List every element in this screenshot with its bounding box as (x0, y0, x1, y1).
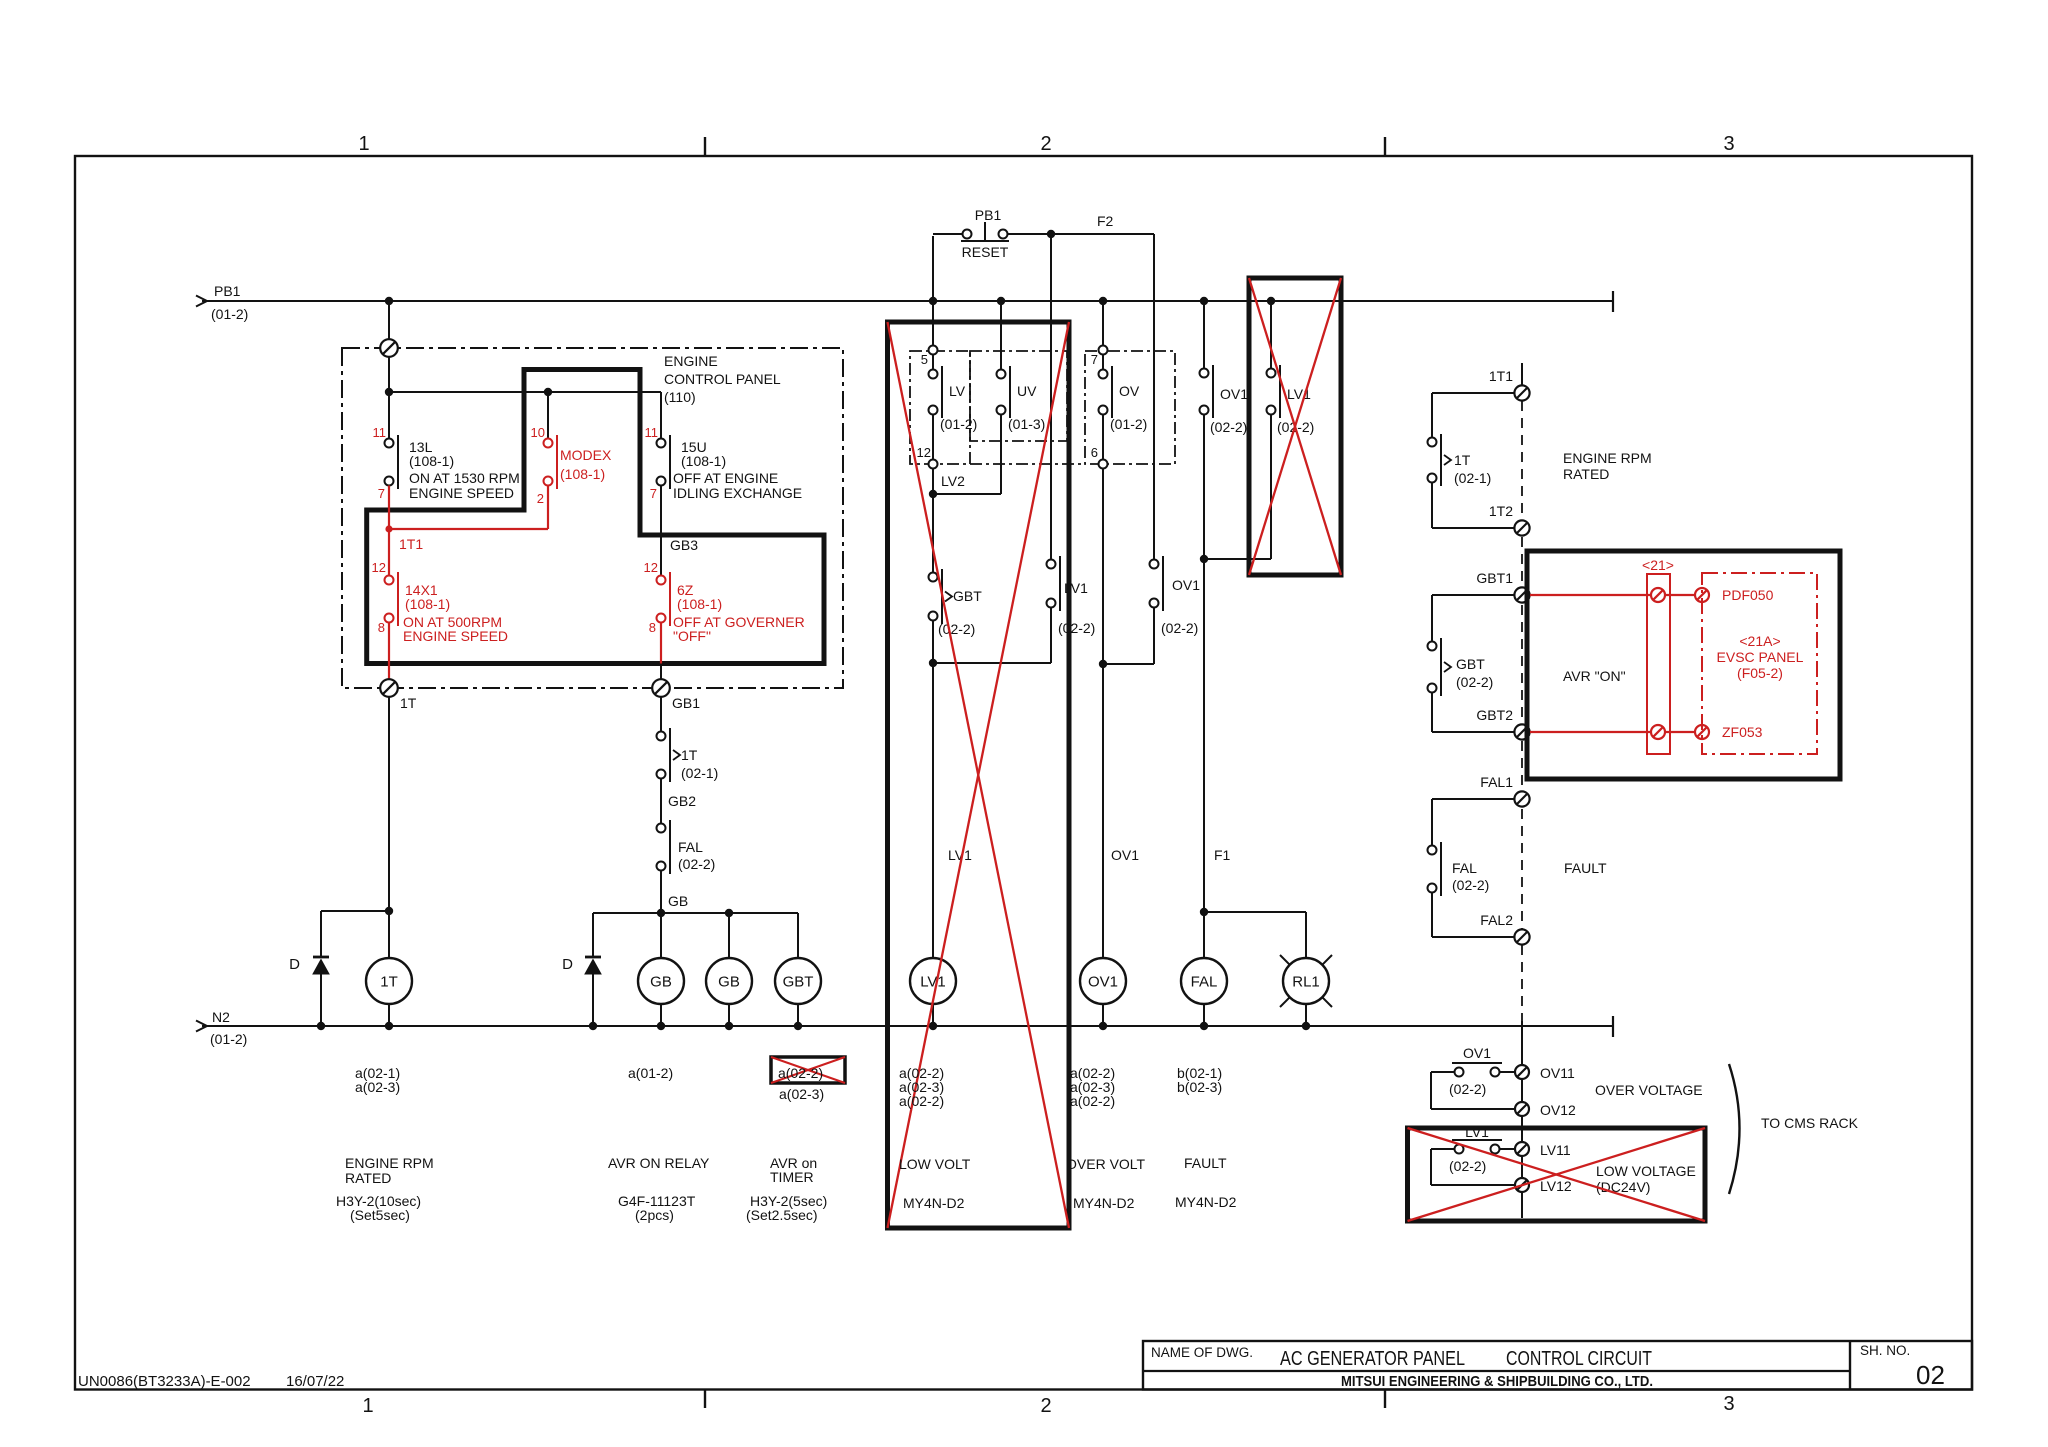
red X of deleted LV1 upper box (1249, 278, 1341, 575)
wire OV1 cms right lead (1500, 1071, 1515, 1073)
svg-text:1T: 1T (380, 974, 398, 991)
wire GBT1 left branch (1432, 594, 1514, 596)
panel inner bus (389, 391, 661, 393)
wire 14X1 to 1T terminal (388, 623, 390, 681)
contact FAL (02-2) right (1440, 842, 1442, 896)
node 1T1 junction (385, 525, 392, 532)
diode D (1T) (313, 956, 329, 959)
wire PB1 down to OV pin7 (1102, 301, 1104, 350)
svg-text:1: 1 (362, 1395, 373, 1417)
svg-text:AVR "ON": AVR "ON" (1563, 668, 1626, 684)
linkage box around UV (970, 351, 1067, 441)
wire RESET left lead (933, 233, 962, 235)
svg-text:OV1: OV1 (1111, 847, 1139, 863)
red wire strip to EVSC lower (1665, 731, 1695, 733)
wire LV1 coil to N2 (932, 1004, 934, 1026)
svg-text:(02-2): (02-2) (1456, 674, 1493, 690)
PB1 rail source arrow (196, 296, 207, 307)
junction RL1 branch (1200, 908, 1208, 916)
svg-text:D: D (289, 956, 300, 973)
dashed device centre line (1521, 401, 1523, 1021)
wire pin12 to LV2 node (932, 469, 934, 578)
svg-text:(110): (110) (664, 389, 696, 405)
svg-text:7: 7 (650, 486, 657, 501)
svg-text:N2: N2 (212, 1009, 230, 1025)
svg-text:(F05-2): (F05-2) (1737, 665, 1783, 681)
svg-text:ZF053: ZF053 (1722, 724, 1763, 740)
wire UV bottom (1000, 415, 1002, 495)
svg-text:1T2: 1T2 (1489, 503, 1513, 519)
svg-text:FAL: FAL (1191, 974, 1218, 991)
contact LV (01-2) (941, 366, 943, 418)
linkage box around OV (1085, 351, 1175, 464)
wire LV1 contact bottom tie (933, 662, 1051, 664)
svg-text:GBT2: GBT2 (1476, 707, 1513, 723)
svg-text:MY4N-D2: MY4N-D2 (1073, 1195, 1135, 1211)
svg-text:(02-2): (02-2) (1058, 620, 1095, 636)
svg-text:OV11: OV11 (1540, 1065, 1575, 1081)
red terminal EVSC lower (1695, 725, 1709, 739)
wire LV1 cms right lead (1500, 1148, 1515, 1150)
top tick col 2-3 (1384, 137, 1386, 156)
wire LV1 cms left jog (1431, 1148, 1455, 1150)
terminal GBT2 (1514, 724, 1529, 739)
contact 6Z (108-1) (669, 572, 671, 626)
svg-text:12: 12 (644, 560, 658, 575)
svg-text:a(02-2): a(02-2) (899, 1093, 944, 1109)
wire F2 drop to OV1 self-hold (1153, 234, 1155, 560)
brace TO CMS RACK (1729, 1064, 1740, 1194)
pin 12 circle of LV (929, 460, 938, 469)
wire FAL1 left branch (1432, 798, 1514, 800)
svg-text:GB1: GB1 (672, 695, 700, 711)
wire 1T contact top drop (1431, 393, 1433, 438)
svg-text:GBT: GBT (1456, 656, 1485, 672)
svg-text:(02-2): (02-2) (1449, 1158, 1486, 1174)
junction 1T N2 (385, 1022, 393, 1030)
wire stub above 1T1 (1521, 363, 1523, 385)
wire RL1 to N2 (1305, 1004, 1307, 1026)
node PB1 rail (202, 300, 1613, 302)
svg-text:NAME OF DWG.: NAME OF DWG. (1151, 1345, 1253, 1360)
svg-text:GB2: GB2 (668, 793, 696, 809)
svg-text:FAL: FAL (678, 839, 703, 855)
thick box AVR ON (1527, 551, 1840, 779)
junction OV1 coil node (1099, 660, 1107, 668)
svg-text:F2: F2 (1097, 213, 1114, 229)
PB1 rail end tick (1612, 291, 1614, 312)
junction RL1 N2 (1302, 1022, 1310, 1030)
svg-text:LV1: LV1 (920, 974, 946, 991)
wire PB1 down to UV (1000, 301, 1002, 370)
deleted small box a(02-2) (771, 1057, 845, 1083)
wire 6Z to GB1 terminal black part (660, 664, 662, 681)
svg-text:1T1: 1T1 (399, 536, 423, 552)
red wire 1T1 to MODEX (389, 528, 548, 530)
contact 1T (02-1) timed (669, 728, 671, 782)
svg-text:(2pcs): (2pcs) (635, 1207, 674, 1223)
svg-text:ENGINE SPEED: ENGINE SPEED (409, 485, 514, 501)
red X of deleted LOW VOLT box (888, 322, 1070, 1228)
svg-text:(108-1): (108-1) (681, 453, 726, 469)
svg-text:MY4N-D2: MY4N-D2 (1175, 1194, 1237, 1210)
junction tie node 559 (1200, 555, 1208, 563)
junction GBT coil N2 (794, 1022, 802, 1030)
junction PB1 x933 (929, 297, 937, 305)
svg-text:(02-2): (02-2) (1449, 1081, 1486, 1097)
contact LV1 (02-2) self hold (1059, 556, 1061, 611)
contact LV1 (02-2) upper deleted (1279, 365, 1281, 418)
svg-text:OV1: OV1 (1172, 577, 1200, 593)
junction LV2 (929, 490, 937, 498)
svg-text:7: 7 (378, 486, 385, 501)
svg-text:CONTROL PANEL: CONTROL PANEL (664, 371, 781, 387)
wire bus to GB coil 1 (660, 913, 662, 958)
wire to FAL2 terminal (1432, 936, 1514, 938)
svg-text:F1: F1 (1214, 847, 1231, 863)
svg-text:GBT1: GBT1 (1476, 570, 1513, 586)
wire OV contact to pin6 (1102, 415, 1104, 460)
svg-text:(01-2): (01-2) (940, 416, 977, 432)
svg-text:D: D (562, 956, 573, 973)
wire RL1 branch drop (1305, 912, 1307, 958)
svg-text:(02-2): (02-2) (678, 856, 715, 872)
svg-text:(108-1): (108-1) (405, 596, 450, 612)
wire GB1 coil to N2 (660, 1004, 662, 1026)
junction PB1 x1204 (1200, 297, 1208, 305)
svg-text:PB1: PB1 (975, 207, 1002, 223)
pushbutton PB1 RESET (963, 230, 972, 239)
N2 rail end tick (1612, 1016, 1614, 1037)
svg-text:ON AT 1530 RPM: ON AT 1530 RPM (409, 470, 520, 486)
svg-text:ENGINE RPM: ENGINE RPM (345, 1155, 434, 1171)
svg-text:OVER VOLTAGE: OVER VOLTAGE (1595, 1082, 1703, 1098)
svg-text:"OFF": "OFF" (673, 628, 711, 644)
wire 6Z to GB1 terminal red part (660, 623, 662, 664)
svg-text:2: 2 (1040, 133, 1051, 155)
bottom tick col 1-2 (704, 1390, 706, 1409)
svg-text:LOW VOLTAGE: LOW VOLTAGE (1596, 1163, 1696, 1179)
svg-text:OFF AT ENGINE: OFF AT ENGINE (673, 470, 778, 486)
wire F2 drop to LV1 self-hold (1050, 234, 1052, 560)
wire pin7 to OV contact (1102, 355, 1104, 370)
contact GBT (02-2) right (1440, 638, 1442, 696)
pin 6 circle of OV (1099, 460, 1108, 469)
pin 7 circle of OV (1099, 346, 1108, 355)
deleted box around LV1 upper (1249, 278, 1341, 575)
bottom tick col 2-3 (1384, 1390, 1386, 1409)
svg-text:1T: 1T (400, 695, 417, 711)
engine control panel boundary box (342, 348, 843, 688)
wire GBT coil to N2 (797, 1004, 799, 1026)
svg-text:1: 1 (358, 133, 369, 155)
coil FAL (1181, 958, 1227, 1004)
title block outline (1143, 1341, 1972, 1390)
wire bus down to MODEX (547, 392, 549, 439)
wire FAL contact bottom drop (1431, 893, 1433, 938)
svg-text:(02-2): (02-2) (1210, 419, 1247, 435)
junction GB coil N2 (657, 1022, 665, 1030)
title block horizontal divider (1143, 1370, 1850, 1372)
svg-text:OV: OV (1119, 383, 1140, 399)
svg-text:GBT: GBT (953, 588, 982, 604)
junction F2 node (1047, 230, 1055, 238)
contact OV1 (02-2) cms block (1455, 1068, 1464, 1077)
wire bus down to 13L (388, 392, 390, 438)
deleted box LOW VOLTAGE cms (1408, 1128, 1706, 1221)
junction bus x661 (657, 909, 665, 917)
svg-text:ENGINE RPM: ENGINE RPM (1563, 450, 1652, 466)
wire GBT contact bottom drop (1431, 693, 1433, 733)
wire GB diode to N2 (592, 973, 594, 1026)
wire FAL coil to N2 (1203, 1004, 1205, 1026)
wire GB2 coil to N2 (728, 1004, 730, 1026)
wire terminal to inner bus (388, 356, 390, 392)
svg-text:10: 10 (531, 425, 545, 440)
junction LV1 N2 (929, 1022, 937, 1030)
terminal LV12 (1515, 1178, 1529, 1192)
svg-text:PDF050: PDF050 (1722, 587, 1774, 603)
wire LV1 upper bottom drop (1270, 415, 1272, 560)
svg-text:MY4N-D2: MY4N-D2 (903, 1195, 965, 1211)
pin 5 circle of LV (929, 346, 938, 355)
GB coil bus (593, 912, 798, 914)
red terminal strip lower (1651, 725, 1665, 739)
svg-text:SH. NO.: SH. NO. (1860, 1343, 1910, 1358)
thick highlight outline (engine panel group) (367, 370, 824, 664)
junction FAL N2 (1200, 1022, 1208, 1030)
wire GBT contact top drop (1431, 595, 1433, 642)
terminal OV12 (1515, 1102, 1529, 1116)
svg-text:TO CMS RACK: TO CMS RACK (1761, 1115, 1859, 1131)
svg-text:(108-1): (108-1) (560, 466, 605, 482)
wire RL1 branch horizontal (1204, 911, 1306, 913)
junction PB1 x1271 (1267, 297, 1275, 305)
red terminal strip 21 (1647, 574, 1670, 754)
svg-text:RL1: RL1 (1292, 974, 1320, 991)
wire diode to N2 (320, 973, 322, 1026)
svg-text:1T: 1T (681, 747, 698, 763)
svg-text:a(02-2): a(02-2) (778, 1065, 823, 1081)
wire 1T terminal down to coil (388, 696, 390, 958)
svg-text:a(02-3): a(02-3) (779, 1086, 824, 1102)
svg-text:RATED: RATED (1563, 466, 1609, 482)
contact FAL (02-2) (669, 820, 671, 874)
svg-text:2: 2 (537, 491, 544, 506)
svg-text:(02-1): (02-1) (681, 765, 718, 781)
junction inner bus x548 (544, 388, 552, 396)
svg-text:(02-2): (02-2) (938, 621, 975, 637)
terminal GBT1 (1514, 587, 1529, 602)
svg-text:LV12: LV12 (1540, 1178, 1572, 1194)
svg-text:(108-1): (108-1) (677, 596, 722, 612)
wire LV contact to pin12 (932, 415, 934, 460)
svg-text:3: 3 (1723, 133, 1734, 155)
red terminal EVSC upper (1695, 588, 1709, 602)
drawing border frame (75, 156, 1972, 1390)
wire OV1 cms left jog (1431, 1071, 1455, 1073)
contact MODEX (108-1) (556, 435, 558, 489)
contact 13L (108-1) (397, 435, 399, 489)
junction LV1 coil node (929, 659, 937, 667)
wire OV1 upper to F1 node (1203, 415, 1205, 959)
svg-text:(02-2): (02-2) (1452, 877, 1489, 893)
svg-text:MITSUI ENGINEERING & SHIPBUILD: MITSUI ENGINEERING & SHIPBUILDING CO., L… (1341, 1373, 1653, 1390)
svg-text:FAL1: FAL1 (1480, 774, 1513, 790)
wire LV1 selfhold bottom drop (1050, 608, 1052, 664)
linkage box around LV (910, 351, 970, 464)
svg-text:(Set5sec): (Set5sec) (350, 1207, 410, 1223)
svg-text:a(02-2): a(02-2) (1070, 1093, 1115, 1109)
svg-text:LV2: LV2 (941, 473, 965, 489)
wire centre line to CMS terminals (1521, 1021, 1523, 1218)
junction bus x729 (725, 909, 733, 917)
wire bus to GB coil 2 (728, 913, 730, 958)
wire RESET right lead (1008, 233, 1051, 235)
svg-text:ENGINE: ENGINE (664, 353, 718, 369)
contact GBT (02-2) timed (941, 569, 943, 624)
svg-text:OVER VOLT: OVER VOLT (1066, 1156, 1146, 1172)
wire 15U to 6Z (net GB3) (660, 486, 662, 577)
terminal LV11 (1515, 1142, 1529, 1156)
terminal OV11 (1515, 1065, 1529, 1079)
wire bus to GBT coil (797, 913, 799, 958)
svg-text:FAL: FAL (1452, 860, 1477, 876)
svg-text:OV1: OV1 (1463, 1045, 1491, 1061)
wire diode branch horizontal (321, 910, 389, 912)
wire 1T contact bottom drop (1431, 483, 1433, 529)
junction inner bus x389 (385, 388, 393, 396)
contact OV (01-2) (1111, 366, 1113, 418)
red wire GBT2 to strip (1530, 731, 1651, 733)
svg-text:GBT: GBT (783, 974, 814, 991)
wire pin6 down to OV1 coil node (1102, 469, 1104, 959)
svg-text:8: 8 (649, 620, 656, 635)
svg-text:(01-3): (01-3) (1008, 416, 1045, 432)
svg-text:<21>: <21> (1642, 557, 1674, 573)
junction PB1 x1103 (1099, 297, 1107, 305)
diode D (GB) (585, 956, 601, 959)
coil GB first (638, 958, 684, 1004)
wire PB1 down to LV pin5 (932, 301, 934, 350)
svg-text:(108-1): (108-1) (409, 453, 454, 469)
svg-text:12: 12 (372, 560, 386, 575)
svg-text:(01-2): (01-2) (210, 1031, 247, 1047)
svg-text:FAULT: FAULT (1184, 1155, 1227, 1171)
svg-text:ENGINE SPEED: ENGINE SPEED (403, 628, 508, 644)
wire bus down to 15U (660, 392, 662, 439)
terminal 1T2 (1514, 520, 1529, 535)
svg-text:a(01-2): a(01-2) (628, 1065, 673, 1081)
red wire strip to EVSC upper (1665, 594, 1695, 596)
terminal GB1 on panel bottom edge (652, 679, 670, 697)
wire pin5 to LV contact (932, 355, 934, 370)
junction PB1 x1001 (997, 297, 1005, 305)
coil 1T (366, 958, 412, 1004)
N2 rail source arrow (196, 1021, 207, 1032)
svg-text:5: 5 (921, 352, 928, 367)
junction diode N2 (317, 1022, 325, 1030)
coil GB second (706, 958, 752, 1004)
svg-text:RATED: RATED (345, 1170, 391, 1186)
terminal 1T on panel bottom edge (380, 679, 398, 697)
svg-text:FAL2: FAL2 (1480, 912, 1513, 928)
wire PB1 up to RESET (932, 236, 934, 301)
terminal FAL1 (1514, 791, 1529, 806)
wire 13L to 1T1 node (388, 486, 390, 577)
svg-text:FAULT: FAULT (1564, 860, 1607, 876)
EVSC panel dashed box (1702, 573, 1817, 754)
wire tie 559 horizontal (1204, 558, 1271, 560)
svg-text:11: 11 (373, 425, 387, 440)
svg-text:TIMER: TIMER (770, 1169, 814, 1185)
wire PB1 down to OV1 upper (1203, 301, 1205, 369)
svg-text:UN0086(BT3233A)-E-002: UN0086(BT3233A)-E-002 (78, 1373, 251, 1390)
svg-text:12: 12 (917, 445, 931, 460)
svg-text:7: 7 (1091, 352, 1098, 367)
svg-text:(DC24V): (DC24V) (1596, 1179, 1650, 1195)
svg-text:(02-1): (02-1) (1454, 470, 1491, 486)
contact LV1 (02-2) cms block (1455, 1145, 1464, 1154)
junction diode branch (385, 907, 393, 915)
svg-text:AVR ON RELAY: AVR ON RELAY (608, 1155, 710, 1171)
svg-text:OV12: OV12 (1540, 1102, 1576, 1118)
node N2 rail (202, 1025, 1613, 1027)
svg-text:16/07/22: 16/07/22 (286, 1373, 344, 1390)
terminal 1T1 (1514, 385, 1529, 400)
wire GBT selfhold top from LV2 chain (932, 573, 934, 578)
svg-text:AC GENERATOR PANEL: AC GENERATOR PANEL (1280, 1348, 1465, 1370)
svg-text:IDLING EXCHANGE: IDLING EXCHANGE (673, 485, 802, 501)
wire bus down diode (592, 913, 594, 957)
wire 1T coil to N2 (388, 1004, 390, 1026)
coil LV1 (910, 958, 956, 1004)
contact 15U (108-1) (669, 435, 671, 489)
linkage dashed bottom tie (970, 463, 1085, 465)
terminal on panel top edge (380, 339, 398, 357)
svg-text:8: 8 (378, 620, 385, 635)
wire 1T1 left branch (1432, 392, 1514, 394)
wire GBT bottom to junction (932, 621, 934, 959)
lamp RL1 (1283, 958, 1329, 1004)
svg-text:1T1: 1T1 (1489, 368, 1513, 384)
coil GBT (775, 958, 821, 1004)
wire to FAL contact (net GB2) (660, 779, 662, 824)
wire FAL contact to GB bus (660, 871, 662, 914)
wire to GBT2 terminal (1432, 731, 1514, 733)
svg-text:(01-2): (01-2) (211, 306, 248, 322)
junction GB diode N2 (589, 1022, 597, 1030)
svg-text:PB1: PB1 (214, 283, 241, 299)
svg-text:OV1: OV1 (1220, 386, 1248, 402)
wire diode anode drop (320, 911, 322, 957)
junction OV1 N2 (1099, 1022, 1107, 1030)
wire GB1 terminal down (660, 696, 662, 731)
contact 14X1 (108-1) (397, 572, 399, 626)
svg-text:<21A>: <21A> (1739, 633, 1780, 649)
contact UV (01-3) (1009, 366, 1011, 418)
wire FAL contact top drop (1431, 799, 1433, 846)
wire OV1 selfhold bottom drop (1153, 608, 1155, 665)
svg-text:RESET: RESET (962, 244, 1009, 260)
svg-text:(02-2): (02-2) (1161, 620, 1198, 636)
wire F2 horizontal (1051, 233, 1154, 235)
svg-text:UV: UV (1017, 383, 1037, 399)
red X small box (771, 1057, 845, 1083)
svg-text:3: 3 (1723, 1393, 1734, 1415)
wire OV1 coil to N2 (1102, 1004, 1104, 1026)
svg-text:MODEX: MODEX (560, 447, 612, 463)
